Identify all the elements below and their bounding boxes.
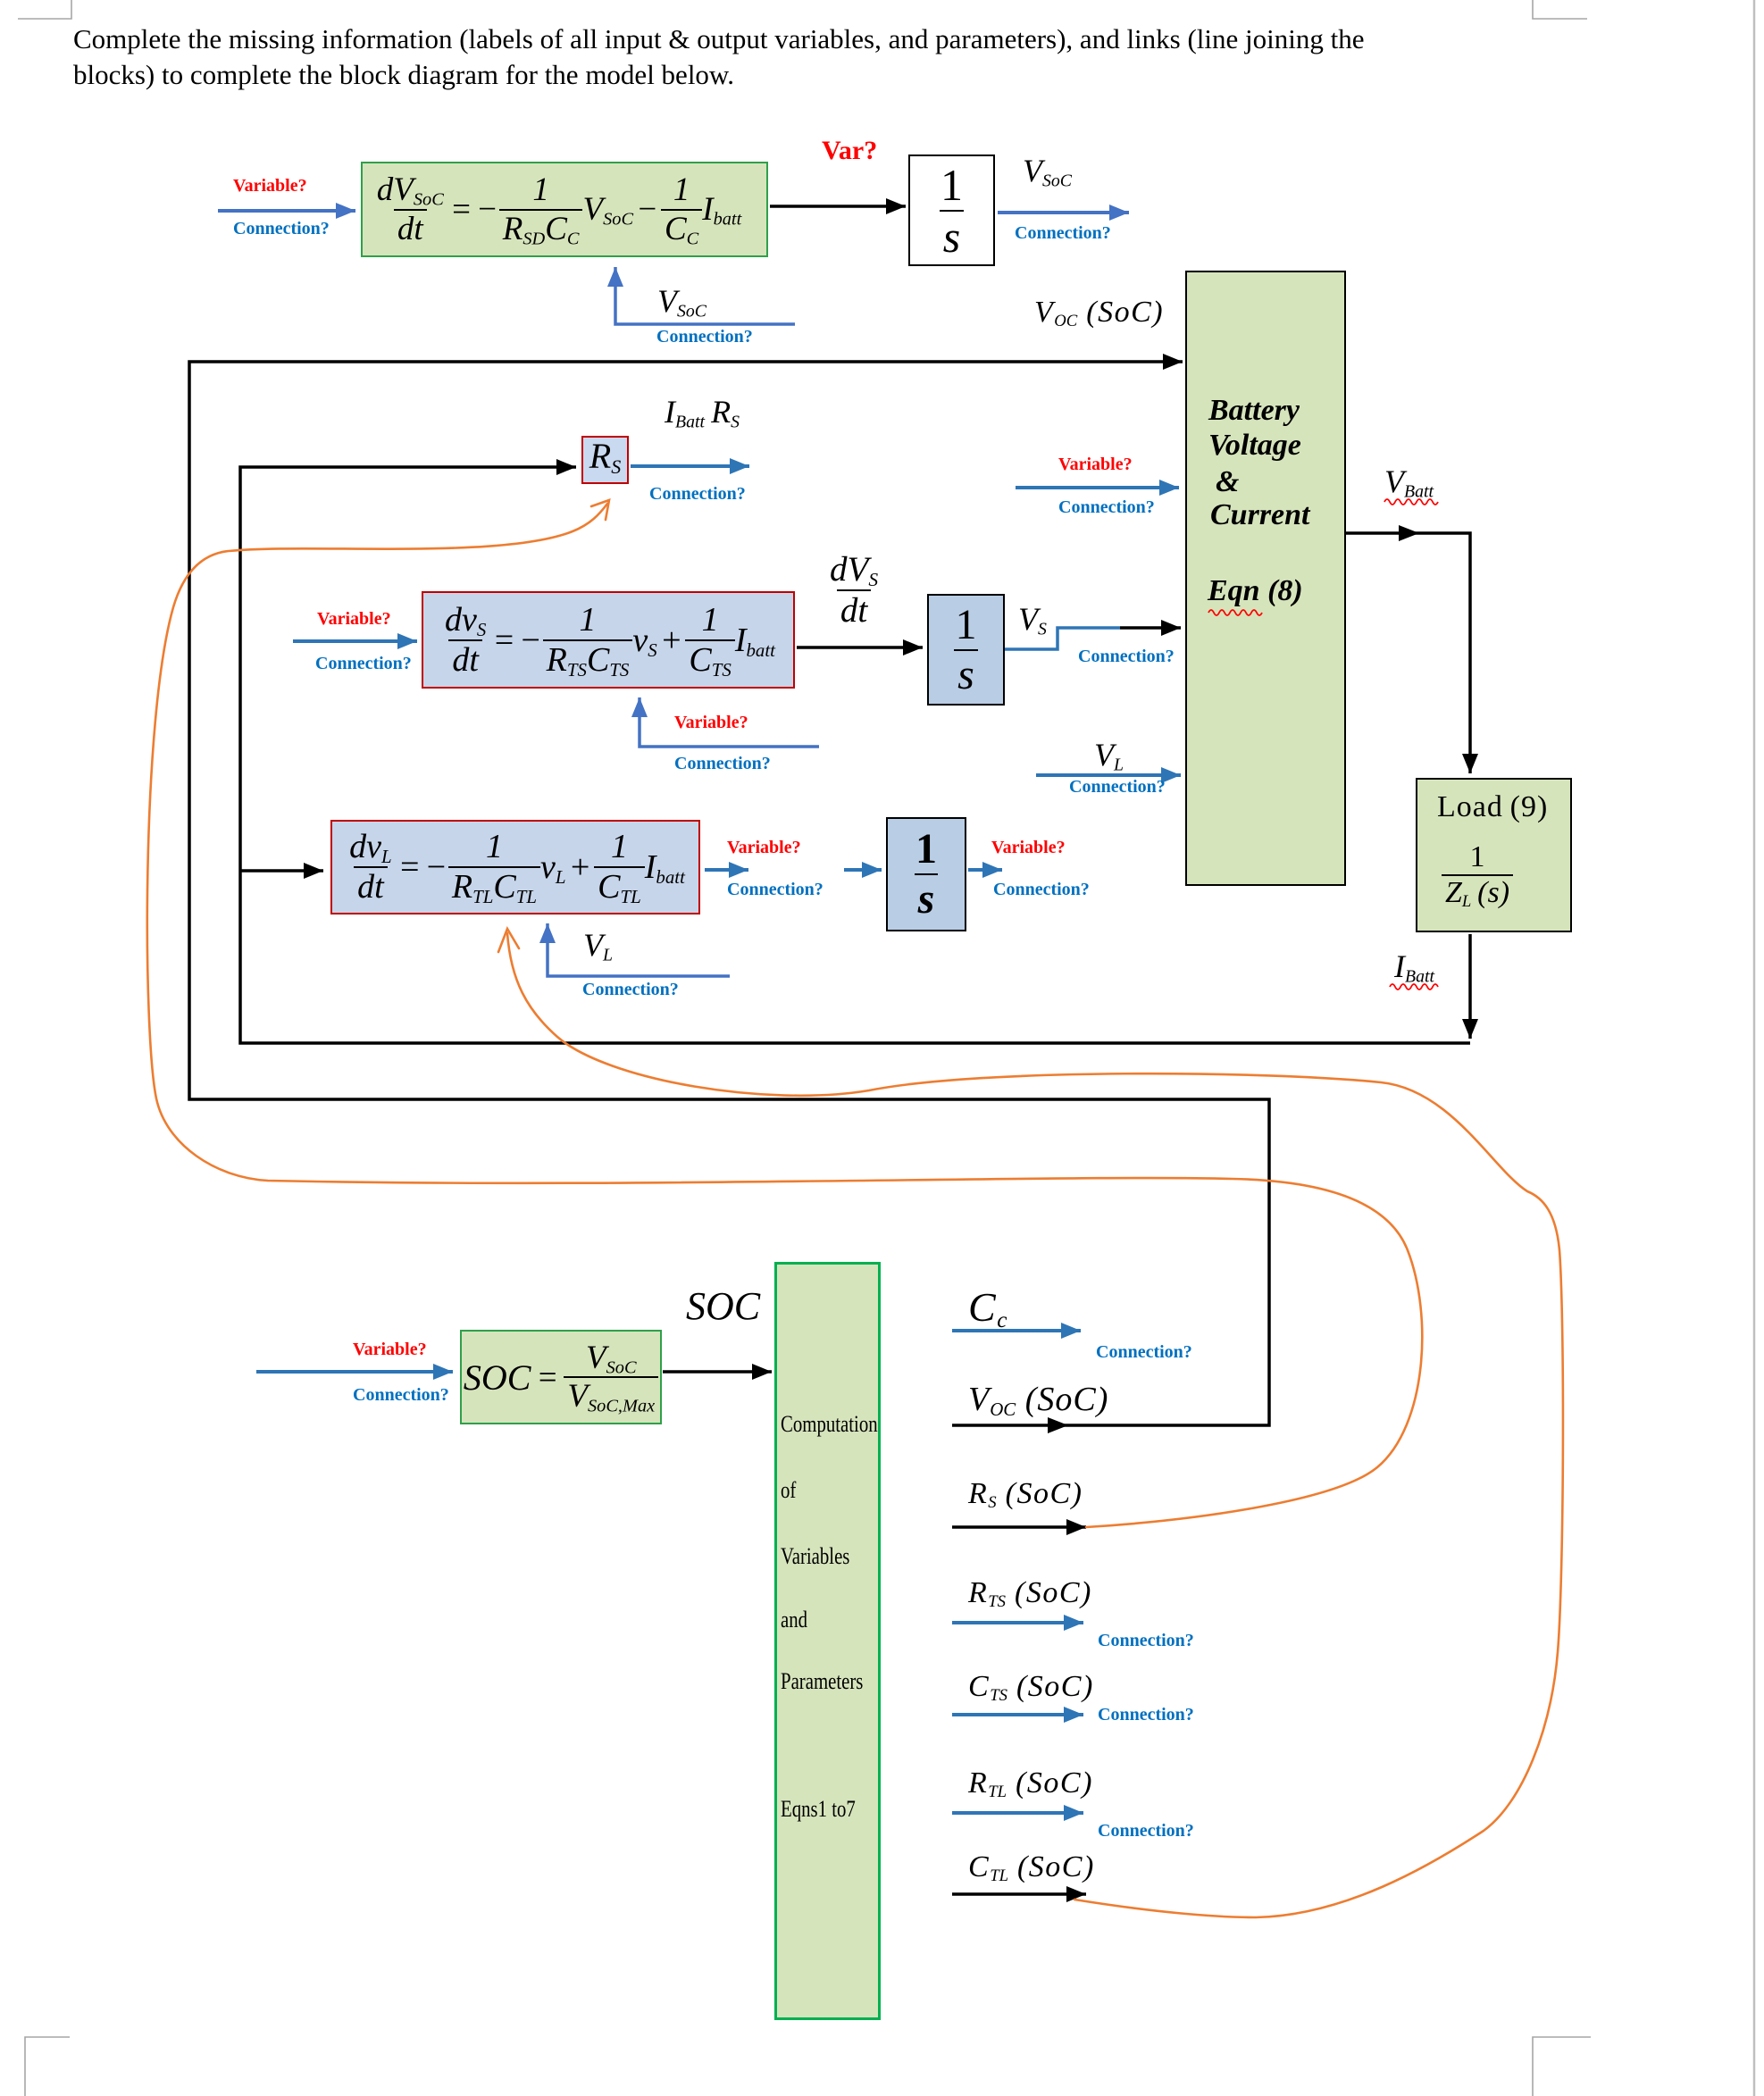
label Connection? (dv_L output) [727,880,823,900]
label R_TS (SoC) parameter [968,1576,1092,1610]
label V_OC (SoC) top [1034,296,1164,330]
gray page right edge [1753,0,1756,2096]
label Variables [781,1543,849,1570]
wire: V_L feedback into dv_L bottom [548,923,730,976]
label Variable? (dv_S feedback) [674,713,748,733]
block: load Eqn (9) [1416,778,1572,932]
label Connection? (V_L into battery) [1069,777,1166,797]
wire: black arrow V_S into battery [1120,626,1181,630]
label Computation [781,1411,878,1438]
label Var? [822,136,877,166]
wire: R_TL(SoC) parameter blue arrow [952,1811,1083,1815]
orange curve: C_TL(SoC) parameter routed to dv_L block [498,929,1563,1917]
label V_OC (SoC) parameter [968,1380,1108,1419]
label Connection? (battery input) [1058,497,1155,518]
wire: SoC equation to integrator 1/s [770,205,906,208]
wire: C_c parameter blue arrow [952,1329,1081,1332]
wire: blue arrow into integrator 3 [844,868,882,872]
junction arrowhead on V_OC bottom line [1048,1417,1068,1433]
label SOC output [686,1283,760,1329]
block: dv_S equation (blue) [422,591,795,689]
wire: R_TS(SoC) parameter blue arrow [952,1621,1083,1624]
label Variable? (SOC input) [353,1340,427,1360]
block: SoC state equation (green) [361,162,768,257]
label Connection? (V_L feedback) [582,980,679,1000]
label V_Batt [1384,463,1434,500]
wire: V_L blue arrow into battery [1036,773,1181,777]
title text [73,21,1397,93]
wire: blue input arrow into dv_S block [293,639,417,643]
wire: V_S stepped blue line from integrator 2 [1005,628,1120,649]
block: SOC equation (green) [460,1330,662,1424]
label Connection? (C_c) [1096,1342,1192,1363]
label V_S [1018,600,1047,638]
label Connection? (R_TL) [1098,1821,1194,1841]
label Connection? (SoC eq input) [233,219,330,239]
label C_TL (SoC) parameter [968,1850,1095,1884]
label and [781,1607,807,1633]
wire: I_batt feedback line to R_S block [240,467,1470,1043]
label Connection? (dv_S feedback) [674,754,771,774]
label Variable? (battery input) [1058,455,1133,475]
red wavy underline under V_Batt [1384,499,1438,505]
wire: branch of feedback into dv_L block [240,869,323,873]
wire: blue input arrow into SOC block [256,1370,453,1374]
label R_S (SoC) parameter [968,1477,1083,1511]
wire: V_OC(SoC) path from computation block up into battery block [189,362,1269,1425]
label Variable? (dv_S input) [317,609,391,630]
junction arrowhead on V_Batt line [1399,525,1419,541]
label Connection? (integrator 3 output) [993,880,1090,900]
wire: integrator 3 blue output [968,868,1002,872]
label Connection? (R_TS) [1098,1631,1194,1651]
label Battery [1208,394,1300,428]
label C_c parameter [968,1283,1007,1331]
wire: C_TS(SoC) parameter blue arrow [952,1713,1083,1716]
label Connection? (C_TS) [1098,1705,1194,1725]
wire: V_SoC feedback into SoC equation bottom [615,267,795,324]
label & [1216,465,1239,499]
label V_L (feedback) [583,926,613,964]
label Connection? (feedback) [656,327,753,347]
label Variable? (integrator 3 output) [991,838,1066,858]
label R_TL (SoC) parameter [968,1766,1093,1800]
red wavy underline under I_Batt [1390,984,1438,990]
wire: V_SoC output of integrator (hanging) [998,211,1129,214]
orange curve: R_S(SoC) parameter routed to R_S block [147,500,1422,1527]
label dV_S/dt [826,550,882,630]
block: dv_L equation (blue) [330,820,700,914]
label Variable? (dv_L output) [727,838,801,858]
label Connection? (integrator output) [1015,223,1111,244]
block: integrator 1/s (V_S) [927,594,1005,706]
wire: blue Variable? arrow into battery [1016,486,1179,489]
label 1/Z_L(s) [1442,840,1513,910]
wire: feedback arrow into dv_S bottom [640,697,819,747]
label Parameters [781,1668,863,1695]
wire: load output I_Batt down [1468,934,1472,1039]
red wavy underline under Eqn label [1208,610,1262,615]
block: integrator 1/s (V_L) [886,817,966,931]
label Load (9) [1437,790,1548,824]
label Current [1210,498,1310,532]
label Voltage [1208,429,1301,463]
label C_TS (SoC) parameter [968,1670,1094,1704]
block: battery voltage & current Eqn (8) [1185,271,1346,886]
block: R_S gain [581,436,629,484]
label of [781,1477,796,1504]
wire: SOC block to computation block [663,1370,772,1374]
wire: dv_L block blue output [705,868,748,872]
wire: C_TL(SoC) parameter black arrow [952,1892,1086,1896]
label V_SoC (integrator output) [1023,152,1072,189]
label V_L (into battery) [1094,736,1124,773]
label I_Batt [1394,948,1434,985]
label Connection? (R_S output) [649,484,746,505]
label Connection? (SOC input) [353,1385,449,1406]
label Variable? (SoC eq input) [233,176,307,196]
label V_SoC (feedback) [657,282,706,320]
label Eqns1 to7 [781,1796,856,1823]
wire: dv_S block to integrator 2 [797,646,923,649]
label Connection? (dv_S input) [315,654,412,674]
label Connection? (V_S) [1078,647,1175,667]
wire: battery output V_Batt to load [1346,533,1470,773]
block: computation of variables and parameters [774,1262,881,2020]
label Eqn (8) [1208,574,1303,608]
wire: R_S block blue output (hanging) [631,464,749,468]
label I_Batt R_S [665,393,740,430]
block: integrator 1/s (V_SoC) [908,154,995,266]
wire: blue input arrow into SoC equation block [218,209,355,213]
wire: R_S(SoC) parameter black arrow [952,1525,1086,1529]
